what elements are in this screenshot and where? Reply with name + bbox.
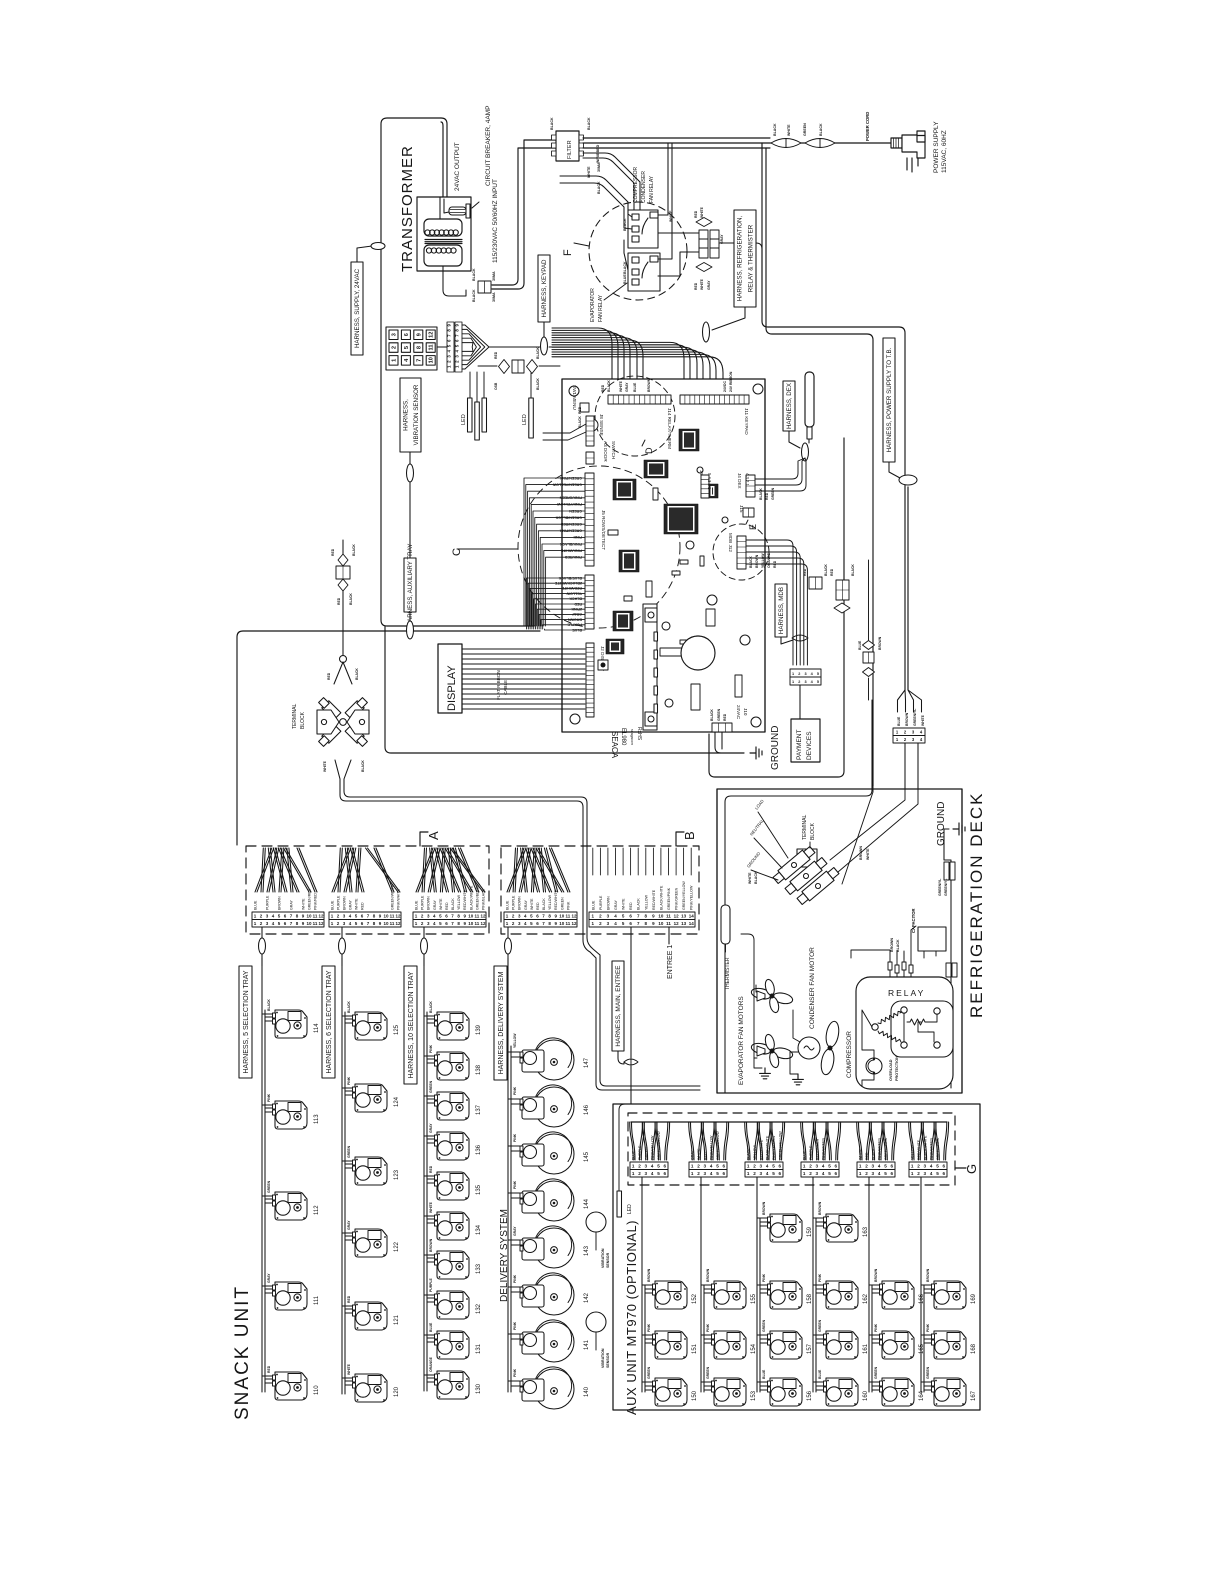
svg-text:PINK: PINK bbox=[513, 1086, 517, 1095]
svg-text:VIBRATION: VIBRATION bbox=[601, 1248, 605, 1268]
svg-text:2BLACK/WHITE: 2BLACK/WHITE bbox=[554, 581, 582, 585]
svg-text:PINK: PINK bbox=[573, 535, 582, 539]
svg-text:RED: RED bbox=[361, 902, 365, 910]
svg-text:RED: RED bbox=[723, 713, 727, 721]
svg-text:13: 13 bbox=[681, 921, 687, 926]
svg-text:FAN RELAY: FAN RELAY bbox=[598, 294, 604, 322]
connector small bbox=[512, 360, 524, 373]
motor 142 bbox=[508, 1287, 520, 1292]
svg-text:GREEN: GREEN bbox=[347, 1145, 351, 1158]
wire MDB bbox=[746, 540, 807, 665]
svg-text:GRAY: GRAY bbox=[290, 899, 294, 910]
svg-text:A: A bbox=[426, 831, 441, 840]
svg-text:BLACK/WHITE: BLACK/WHITE bbox=[766, 1135, 770, 1160]
svg-text:PINK: PINK bbox=[513, 1368, 517, 1377]
svg-text:YELLOW: YELLOW bbox=[761, 553, 765, 568]
svg-text:PURPLE: PURPLE bbox=[429, 1278, 433, 1292]
svg-text:10: 10 bbox=[559, 914, 565, 919]
svg-text:PINK/YELLOW: PINK/YELLOW bbox=[710, 1135, 714, 1160]
motor 135 bbox=[435, 1172, 470, 1200]
svg-text:BROWN: BROWN bbox=[878, 636, 882, 650]
svg-text:145: 145 bbox=[584, 1151, 590, 1162]
svg-text:135: 135 bbox=[476, 1184, 482, 1195]
svg-text:HARNESS, DELIVERY SYSTEM: HARNESS, DELIVERY SYSTEM bbox=[498, 971, 505, 1074]
svg-text:3: 3 bbox=[760, 1171, 763, 1176]
svg-text:BLACK: BLACK bbox=[267, 999, 271, 1011]
node G bbox=[955, 1167, 966, 1169]
svg-text:BROWN: BROWN bbox=[568, 617, 582, 621]
motor 112 bbox=[273, 1192, 308, 1220]
svg-text:BLACK: BLACK bbox=[550, 117, 554, 130]
motor 157 bbox=[768, 1331, 803, 1359]
connector G3 bbox=[745, 1122, 785, 1160]
svg-text:4: 4 bbox=[651, 1171, 654, 1176]
svg-text:RED/WHITE: RED/WHITE bbox=[463, 889, 467, 910]
svg-text:BROWN: BROWN bbox=[755, 554, 759, 568]
svg-text:123: 123 bbox=[394, 1169, 400, 1180]
svg-text:PINK: PINK bbox=[706, 1323, 710, 1332]
dashed circle C bbox=[518, 466, 680, 628]
svg-text:GREEN/PINK: GREEN/PINK bbox=[884, 1137, 888, 1160]
svg-text:4: 4 bbox=[822, 1171, 825, 1176]
strip B dashed box bbox=[501, 846, 699, 934]
connector J15 bbox=[743, 508, 754, 517]
svg-text:136: 136 bbox=[476, 1144, 482, 1155]
motor 137 bbox=[435, 1092, 470, 1120]
svg-text:PINK/GREEN: PINK/GREEN bbox=[822, 1137, 826, 1160]
svg-text:150: 150 bbox=[692, 1390, 698, 1401]
svg-text:4: 4 bbox=[930, 1164, 933, 1169]
svg-text:HARNESS, DEX: HARNESS, DEX bbox=[786, 383, 793, 429]
svg-text:RED: RED bbox=[765, 492, 769, 500]
svg-text:GREEN/YELLOW: GREEN/YELLOW bbox=[778, 1131, 782, 1160]
svg-text:120: 120 bbox=[394, 1386, 400, 1397]
svg-text:153: 153 bbox=[751, 1390, 757, 1401]
motor 167 bbox=[932, 1378, 967, 1406]
svg-text:HARNESS, 6 SELECTION TRAY: HARNESS, 6 SELECTION TRAY bbox=[326, 970, 333, 1074]
svg-text:PURPLE: PURPLE bbox=[266, 895, 270, 910]
svg-text:SEACA: SEACA bbox=[610, 731, 619, 759]
svg-text:4: 4 bbox=[710, 1171, 713, 1176]
svg-text:BLOCK: BLOCK bbox=[300, 711, 306, 729]
svg-text:2: 2 bbox=[865, 1171, 868, 1176]
connector J10 24VAC bbox=[712, 723, 732, 732]
svg-text:1: 1 bbox=[747, 1171, 750, 1176]
svg-text:137: 137 bbox=[476, 1104, 482, 1115]
motor 111 bbox=[273, 1282, 308, 1310]
aux column 2 wire bbox=[701, 1177, 713, 1392]
svg-text:146: 146 bbox=[584, 1104, 590, 1115]
svg-text:CABLE: CABLE bbox=[503, 680, 508, 695]
svg-text:BLOCK: BLOCK bbox=[810, 822, 816, 840]
connector strip 14 bbox=[591, 881, 693, 910]
svg-text:GRAY: GRAY bbox=[433, 899, 437, 910]
label harness MDB bbox=[775, 584, 787, 637]
svg-text:7: 7 bbox=[416, 359, 422, 362]
svg-text:WHITE: WHITE bbox=[355, 898, 359, 910]
motor 163 bbox=[824, 1214, 859, 1242]
svg-text:1: 1 bbox=[632, 1164, 635, 1169]
svg-text:BROWN: BROWN bbox=[890, 938, 894, 952]
svg-text:11: 11 bbox=[666, 921, 671, 926]
svg-text:BLUE: BLUE bbox=[254, 900, 258, 910]
svg-text:GRAY: GRAY bbox=[707, 280, 711, 290]
vibration sensor bbox=[586, 1212, 606, 1232]
motor 140 bbox=[508, 1381, 520, 1386]
svg-text:10: 10 bbox=[383, 921, 389, 926]
svg-text:2: 2 bbox=[809, 1164, 812, 1169]
svg-text:GRAY: GRAY bbox=[625, 382, 629, 392]
svg-text:11: 11 bbox=[390, 921, 395, 926]
svg-text:5: 5 bbox=[657, 1164, 660, 1169]
passives bbox=[608, 488, 742, 710]
svg-text:RED: RED bbox=[601, 384, 605, 392]
svg-text:1: 1 bbox=[691, 1171, 694, 1176]
label harness refrigeration bbox=[734, 210, 756, 307]
harness drop wires bbox=[261, 927, 263, 938]
svg-text:PINK/RED: PINK/RED bbox=[564, 555, 582, 559]
connector J6 bbox=[701, 475, 709, 498]
connector G1 bbox=[630, 1122, 670, 1160]
svg-text:2: 2 bbox=[798, 680, 800, 684]
svg-text:WHITE: WHITE bbox=[700, 206, 704, 218]
motor 131 bbox=[435, 1331, 470, 1359]
svg-text:6: 6 bbox=[835, 1171, 838, 1176]
svg-text:138: 138 bbox=[476, 1064, 482, 1075]
aux unit box bbox=[613, 1104, 980, 1410]
svg-text:REFRIGERATION DECK: REFRIGERATION DECK bbox=[967, 792, 986, 1018]
svg-text:WHITE: WHITE bbox=[530, 898, 534, 910]
aux column 1 wire bbox=[642, 1177, 654, 1392]
svg-text:B: B bbox=[682, 831, 697, 840]
svg-text:PROTECTION: PROTECTION bbox=[895, 1056, 899, 1081]
svg-text:BLACK/WHITE: BLACK/WHITE bbox=[923, 1135, 927, 1160]
wire entree bbox=[631, 927, 669, 1104]
svg-text:BLACK: BLACK bbox=[569, 597, 582, 601]
svg-text:BLUE: BLUE bbox=[415, 900, 419, 910]
svg-text:PINK/YELLOW: PINK/YELLOW bbox=[772, 1135, 776, 1160]
ICs bbox=[606, 429, 718, 654]
motor 114 bbox=[273, 1010, 308, 1038]
connector J-relay bbox=[699, 230, 719, 258]
svg-text:143: 143 bbox=[584, 1245, 590, 1256]
svg-text:GREEN: GREEN bbox=[762, 1319, 766, 1332]
svg-text:CONDENSER: CONDENSER bbox=[641, 171, 647, 203]
svg-text:BLUE: BLUE bbox=[331, 900, 335, 910]
svg-text:BLACK: BLACK bbox=[896, 939, 900, 952]
svg-text:GRAY: GRAY bbox=[267, 1273, 271, 1283]
svg-text:PINK: PINK bbox=[347, 1076, 351, 1085]
svg-text:J8 SENSE: J8 SENSE bbox=[599, 414, 604, 436]
svg-text:BROWN: BROWN bbox=[762, 1201, 766, 1215]
svg-text:1: 1 bbox=[392, 359, 398, 362]
connector keypad bbox=[447, 322, 462, 372]
svg-text:3: 3 bbox=[645, 1171, 648, 1176]
svg-text:BLACK: BLACK bbox=[710, 709, 714, 721]
label harness vibration bbox=[400, 378, 421, 452]
svg-text:RxHS: RxHS bbox=[636, 727, 642, 741]
dashed circle D bbox=[595, 376, 675, 456]
motor 134 bbox=[435, 1212, 470, 1240]
svg-text:THERMISTER: THERMISTER bbox=[725, 957, 731, 990]
svg-text:HARNESS, REFRIGERATION,: HARNESS, REFRIGERATION, bbox=[737, 215, 744, 301]
svg-text:PURPLE: PURPLE bbox=[599, 895, 603, 910]
motor 158 bbox=[768, 1281, 803, 1309]
label harness keypad bbox=[538, 255, 550, 322]
motor 166 bbox=[880, 1281, 915, 1309]
node B bbox=[676, 832, 684, 846]
connector J4 DEX bbox=[746, 475, 755, 497]
capacitor bbox=[918, 927, 946, 951]
svg-text:GREEN/YELLOW: GREEN/YELLOW bbox=[682, 881, 686, 910]
svg-text:GREEN/YELLOW: GREEN/YELLOW bbox=[657, 1131, 661, 1160]
svg-text:PINK: PINK bbox=[647, 1323, 651, 1332]
svg-text:3: 3 bbox=[804, 672, 806, 676]
svg-text:PINK/BLACK: PINK/BLACK bbox=[482, 888, 486, 910]
svg-text:J4 DEX: J4 DEX bbox=[737, 473, 742, 489]
svg-text:RED: RED bbox=[694, 210, 698, 218]
keypad SW matrix bbox=[386, 327, 437, 370]
svg-text:RED: RED bbox=[865, 1152, 869, 1160]
connector J5 ROWS/DETECT bbox=[585, 473, 594, 566]
svg-text:VIBRATION: VIBRATION bbox=[601, 1348, 605, 1368]
svg-text:GREEN: GREEN bbox=[926, 1366, 930, 1379]
svg-text:WHITE: WHITE bbox=[347, 1363, 351, 1375]
wire bbox=[385, 626, 744, 753]
svg-text:GREEN: GREEN bbox=[706, 1366, 710, 1379]
svg-text:10: 10 bbox=[306, 921, 312, 926]
svg-text:HARNESS, KEYPAD: HARNESS, KEYPAD bbox=[541, 259, 548, 318]
wire bbox=[335, 760, 700, 1090]
svg-text:BROWN: BROWN bbox=[706, 1268, 710, 1282]
svg-text:BLACK: BLACK bbox=[542, 898, 546, 910]
svg-text:GREEN/YL: GREEN/YL bbox=[944, 879, 948, 896]
G bus wire bbox=[631, 1121, 947, 1123]
svg-text:BLACK: BLACK bbox=[747, 1148, 751, 1160]
svg-text:HARNESS, MAIN, ENTREE: HARNESS, MAIN, ENTREE bbox=[615, 965, 622, 1047]
filter FL1 bbox=[556, 131, 579, 161]
svg-text:LED: LED bbox=[522, 414, 528, 425]
motor 143 bbox=[508, 1240, 520, 1245]
svg-text:PINK/GREEN: PINK/GREEN bbox=[878, 1137, 882, 1160]
motor 161 bbox=[824, 1331, 859, 1359]
svg-text:111: 111 bbox=[314, 1295, 320, 1305]
svg-text:BROWN: BROWN bbox=[926, 1268, 930, 1282]
svg-text:10: 10 bbox=[306, 914, 312, 919]
svg-text:12: 12 bbox=[571, 914, 577, 919]
svg-text:RED/WHITE: RED/WHITE bbox=[652, 889, 656, 910]
svg-text:5: 5 bbox=[716, 1171, 719, 1176]
svg-text:RED: RED bbox=[445, 902, 449, 910]
svg-text:GREEN: GREEN bbox=[267, 1180, 271, 1193]
svg-text:1: 1 bbox=[859, 1164, 862, 1169]
motor 165 bbox=[880, 1331, 915, 1359]
svg-text:GREEN/RED: GREEN/RED bbox=[308, 888, 312, 910]
svg-text:RED: RED bbox=[267, 1365, 271, 1373]
svg-text:GREEN: GREEN bbox=[429, 1080, 433, 1093]
SW1 MENU bbox=[580, 403, 589, 412]
motor 125 bbox=[353, 1012, 388, 1040]
svg-text:PINK: PINK bbox=[874, 1323, 878, 1332]
svg-text:11: 11 bbox=[313, 914, 318, 919]
svg-text:30MA: 30MA bbox=[597, 162, 601, 172]
svg-text:WHITE: WHITE bbox=[429, 1201, 433, 1213]
svg-text:2: 2 bbox=[917, 1171, 920, 1176]
svg-text:3: 3 bbox=[924, 1171, 927, 1176]
svg-text:30MA: 30MA bbox=[492, 292, 496, 302]
svg-text:A3 DOOR: A3 DOOR bbox=[603, 441, 608, 462]
svg-text:12: 12 bbox=[318, 914, 324, 919]
svg-text:PURPLE: PURPLE bbox=[512, 895, 516, 910]
node A bbox=[420, 832, 428, 846]
svg-text:6: 6 bbox=[891, 1164, 894, 1169]
svg-text:10: 10 bbox=[429, 357, 435, 363]
connector G2 bbox=[689, 1122, 729, 1160]
svg-text:OVERLOAD: OVERLOAD bbox=[889, 1059, 893, 1081]
svg-text:BLUE: BLUE bbox=[762, 1369, 766, 1379]
motor 133 bbox=[435, 1251, 470, 1279]
svg-text:24VDC: 24VDC bbox=[723, 381, 727, 392]
svg-text:12: 12 bbox=[674, 921, 680, 926]
svg-text:132: 132 bbox=[476, 1303, 482, 1314]
circuit breaker CB1 bbox=[449, 202, 479, 218]
ribbon cable bbox=[462, 649, 585, 709]
svg-text:121: 121 bbox=[394, 1314, 400, 1325]
svg-text:11: 11 bbox=[666, 914, 671, 919]
svg-text:10: 10 bbox=[468, 914, 474, 919]
svg-text:RED: RED bbox=[331, 548, 335, 556]
svg-text:133: 133 bbox=[476, 1263, 482, 1274]
svg-text:4 3 2 1: 4 3 2 1 bbox=[745, 473, 750, 486]
svg-text:PINK: PINK bbox=[762, 1273, 766, 1282]
svg-text:BLUE: BLUE bbox=[633, 382, 637, 392]
svg-text:2: 2 bbox=[809, 1171, 812, 1176]
svg-text:seagacom: seagacom bbox=[630, 729, 634, 745]
edge module bbox=[643, 604, 658, 730]
svg-text:TRANSFORMER: TRANSFORMER bbox=[399, 145, 416, 272]
svg-text:BLUE/BLACK: BLUE/BLACK bbox=[558, 576, 582, 580]
svg-text:12: 12 bbox=[480, 921, 486, 926]
motor 141 bbox=[508, 1334, 520, 1339]
svg-text:PINK: PINK bbox=[513, 1274, 517, 1283]
connector deck feed bbox=[898, 690, 922, 788]
svg-text:BLACK: BLACK bbox=[347, 1001, 351, 1013]
svg-text:114: 114 bbox=[314, 1023, 320, 1033]
svg-text:J11 KEYPAD: J11 KEYPAD bbox=[744, 408, 749, 435]
svg-text:5 4 3 2 1: 5 4 3 2 1 bbox=[707, 473, 712, 490]
svg-text:11: 11 bbox=[429, 345, 435, 351]
aux column 6 wire bbox=[921, 1177, 933, 1392]
wire bundle to PCB bbox=[552, 328, 723, 395]
svg-text:BLUE: BLUE bbox=[572, 628, 582, 632]
svg-text:ORANGE: ORANGE bbox=[429, 1356, 433, 1372]
svg-text:157: 157 bbox=[807, 1343, 813, 1354]
delivery column bbox=[508, 958, 511, 1392]
connector J5b bbox=[585, 575, 594, 629]
connector aux supply bbox=[342, 540, 344, 655]
svg-text:115VAC, 60HZ: 115VAC, 60HZ bbox=[941, 130, 948, 173]
motor 110 bbox=[273, 1372, 308, 1400]
motor 153 bbox=[712, 1378, 747, 1406]
svg-text:113: 113 bbox=[314, 1114, 320, 1124]
svg-text:POWER CORD: POWER CORD bbox=[865, 112, 870, 141]
svg-text:HARNESS, SUPPLY, 24VAC: HARNESS, SUPPLY, 24VAC bbox=[354, 268, 361, 348]
connector 5pin bbox=[790, 669, 821, 685]
svg-text:PURPLE: PURPLE bbox=[809, 1145, 813, 1160]
svg-text:139: 139 bbox=[476, 1024, 482, 1035]
svg-text:12: 12 bbox=[395, 921, 401, 926]
svg-text:BLUE: BLUE bbox=[623, 274, 627, 284]
svg-text:125: 125 bbox=[394, 1024, 400, 1035]
svg-text:169: 169 bbox=[971, 1293, 977, 1304]
svg-text:12: 12 bbox=[480, 914, 486, 919]
svg-text:142: 142 bbox=[584, 1292, 590, 1303]
PCB SEACA EL980 bbox=[562, 379, 765, 732]
svg-text:PURPLE: PURPLE bbox=[337, 895, 341, 910]
motor 164 bbox=[880, 1378, 915, 1406]
svg-text:12: 12 bbox=[571, 921, 577, 926]
svg-text:11: 11 bbox=[475, 921, 480, 926]
svg-text:BLACK: BLACK bbox=[597, 181, 601, 194]
svg-text:PINK: PINK bbox=[926, 1323, 930, 1332]
motor 145 bbox=[508, 1146, 520, 1151]
svg-text:24V RIBBON: 24V RIBBON bbox=[729, 371, 733, 392]
svg-text:GREEN: GREEN bbox=[803, 123, 807, 136]
motor 151 bbox=[653, 1331, 688, 1359]
svg-text:GRAY: GRAY bbox=[571, 612, 582, 616]
svg-text:5: 5 bbox=[884, 1171, 887, 1176]
svg-text:GRAY: GRAY bbox=[347, 1220, 351, 1230]
svg-text:WHITE: WHITE bbox=[921, 714, 925, 726]
svg-text:BLUE: BLUE bbox=[818, 1369, 822, 1379]
svg-text:RED: RED bbox=[578, 406, 582, 414]
motor 139 bbox=[435, 1012, 470, 1040]
svg-text:144: 144 bbox=[584, 1198, 590, 1209]
svg-text:SENSOR: SENSOR bbox=[606, 1252, 610, 1268]
relay group circle bbox=[589, 202, 687, 300]
svg-text:YELLOW: YELLOW bbox=[548, 894, 552, 910]
svg-text:GROUND: GROUND bbox=[936, 802, 947, 846]
wire bbox=[470, 372, 531, 402]
motor 136 bbox=[435, 1132, 470, 1160]
svg-text:RED: RED bbox=[327, 672, 331, 680]
svg-text:BLACK: BLACK bbox=[355, 668, 359, 680]
svg-text:BROWN: BROWN bbox=[518, 896, 522, 910]
svg-text:BLACK: BLACK bbox=[749, 556, 753, 568]
connector strip bbox=[332, 848, 400, 892]
svg-text:SW1 MENU: SW1 MENU bbox=[572, 385, 577, 410]
svg-text:10: 10 bbox=[559, 921, 565, 926]
connector 2x2 bbox=[809, 577, 822, 589]
svg-text:BLUE: BLUE bbox=[632, 1150, 636, 1160]
svg-text:3: 3 bbox=[816, 1171, 819, 1176]
svg-text:6: 6 bbox=[779, 1171, 782, 1176]
vibration sensor bbox=[586, 1312, 606, 1332]
svg-text:1: 1 bbox=[632, 1171, 635, 1176]
svg-text:RED: RED bbox=[694, 282, 698, 290]
motor 113 bbox=[273, 1101, 308, 1129]
svg-text:3: 3 bbox=[392, 333, 398, 336]
svg-text:5: 5 bbox=[884, 1164, 887, 1169]
svg-text:3: 3 bbox=[760, 1164, 763, 1169]
svg-text:14: 14 bbox=[689, 914, 695, 919]
motor 122 bbox=[353, 1229, 388, 1257]
overload protection bbox=[866, 1058, 882, 1074]
svg-text:3: 3 bbox=[804, 680, 806, 684]
label harness auxiliary tray bbox=[404, 544, 416, 627]
svg-text:GREEN/PINK: GREEN/PINK bbox=[667, 887, 671, 910]
svg-text:PINK/BLACK: PINK/BLACK bbox=[559, 542, 582, 546]
